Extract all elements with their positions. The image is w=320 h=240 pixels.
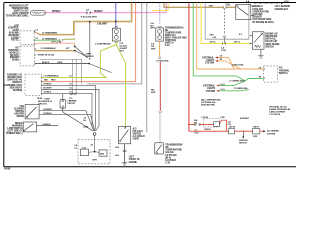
svg-text:C-20 PIN 14: C-20 PIN 14 (269, 113, 281, 116)
svg-text:(WITH TRAILER AND: (WITH TRAILER AND (165, 37, 187, 40)
svg-text:EXTERNAL: EXTERNAL (203, 84, 215, 87)
svg-text:3 AND 24 SHEET: 3 AND 24 SHEET (269, 111, 286, 114)
svg-text:A/C HEATER: A/C HEATER (267, 130, 279, 133)
pin row y55 (34, 54, 37, 56)
svg-text:ENGINE A/C: ENGINE A/C (265, 32, 278, 35)
wire RD down to gauge (159, 62, 161, 111)
ground G101 (122, 163, 127, 166)
svg-text:LT GREEN 20A: LT GREEN 20A (234, 87, 248, 90)
svg-text:SYSTEM: SYSTEM (206, 91, 215, 93)
external lights upper text (202, 56, 214, 64)
svg-text:RES: RES (100, 153, 105, 155)
svg-text:RED: RED (51, 80, 56, 82)
fuse block dashed (204, 119, 220, 128)
svg-text:HEATED SEAT: HEATED SEAT (7, 76, 23, 79)
HTR control head text block (8, 25, 19, 41)
svg-text:ENGINE A: ENGINE A (252, 5, 263, 8)
svg-text:LT GREEN/BLK: LT GREEN/BLK (41, 48, 57, 50)
svg-text:2-BL/WHT: 2-BL/WHT (97, 23, 108, 25)
svg-text:LIGHTS: LIGHTS (207, 88, 215, 90)
svg-text:(IN A): (IN A) (165, 156, 171, 159)
svg-text:LT GREEN/BLK: LT GREEN/BLK (44, 76, 60, 78)
svg-text:C-20: C-20 (165, 163, 171, 165)
fan switch box top right (236, 5, 255, 20)
A/C control module dashed box (20, 46, 35, 66)
fuse box 1 (189, 130, 229, 132)
svg-text:4-RD/WHT: 4-RD/WHT (240, 117, 250, 120)
wire LG chartreuse pin1 (42, 77, 107, 79)
wire OR/salmon vertical B (to A/C module pin2) (41, 3, 135, 82)
wire OR from switch down (159, 41, 161, 57)
svg-text:A-2 4-BOLR: A-2 4-BOLR (133, 135, 146, 138)
pin 2 (33, 39, 36, 41)
wire YL vertical right (201, 3, 251, 44)
arrow into resistor box (250, 43, 252, 45)
svg-text:DO-HD L4/T: DO-HD L4/T (265, 40, 278, 43)
svg-text:MTR: MTR (93, 159, 98, 161)
thermal switch text (279, 67, 290, 75)
blower switch text (14, 105, 24, 118)
svg-text:2-CHARTREUSE: 2-CHARTREUSE (95, 42, 111, 45)
svg-text:LIGHTS: LIGHTS (206, 60, 214, 62)
svg-text:WT/WHT: WT/WHT (44, 109, 53, 111)
wire TN top to fan switch (164, 3, 236, 8)
rear wiper switch box (118, 127, 130, 144)
svg-text:2-A/BLK: 2-A/BLK (42, 123, 51, 126)
wire stubs down with arrows (73, 59, 77, 92)
svg-text:TAN: TAN (44, 79, 49, 82)
wire BK from switch down (124, 144, 126, 164)
gray bus line 2 (146, 3, 148, 132)
svg-text:BLACK: BLACK (42, 61, 50, 64)
svg-text:COOLANT: COOLANT (252, 8, 264, 11)
fuse F1 component (38, 94, 93, 131)
svg-text:LT GREEN/RED: LT GREEN/RED (42, 33, 58, 35)
svg-text:BL/WHT: BL/WHT (44, 88, 53, 90)
svg-text:(WITH A/C 4A): (WITH A/C 4A) (8, 79, 23, 82)
svg-text:(ASSEMBLY RGT: (ASSEMBLY RGT (4, 84, 22, 87)
brake warning text (6, 122, 23, 135)
wire pin5 (42, 93, 94, 131)
svg-text:2-WIRE GROUNDS AT: 2-WIRE GROUNDS AT (269, 108, 291, 111)
svg-text:TO REAR SIDE BRKL: TO REAR SIDE BRKL (6, 15, 30, 18)
transmission switch box (156, 28, 164, 41)
svg-text:ENGINE BAY: ENGINE BAY (275, 8, 289, 11)
gray box control assembly (40, 59, 82, 84)
gray bus line 1 (87, 3, 142, 84)
svg-text:TEMPERATURE: TEMPERATURE (165, 31, 182, 34)
heated seat module text block (4, 73, 23, 92)
svg-text:SYSTEM: SYSTEM (205, 63, 214, 65)
ground under sensor (260, 49, 262, 55)
coolant aux switch box (250, 32, 264, 49)
resistor block B (99, 150, 107, 156)
wire LG pin2 short (35, 39, 60, 41)
chartreuse net from relay (100, 41, 125, 127)
svg-text:C4CF: C4CF (57, 61, 63, 64)
connector S2 on pink wire (87, 11, 91, 14)
svg-text:LR 350 AM: LR 350 AM (165, 154, 176, 157)
wire BL blue vertical (115, 3, 117, 29)
connector on TN wire (223, 6, 226, 9)
svg-text:OPTIONAL A/C 94: OPTIONAL A/C 94 (269, 105, 287, 108)
top right dash-dot line (254, 2, 281, 4)
svg-text:LT GREEN/BLK: LT GREEN/BLK (42, 38, 58, 40)
blower resistor dashed box (78, 140, 110, 164)
pin C2 top (33, 30, 36, 32)
wire GN vertical (193, 3, 236, 76)
A/C thermal switch dashed box (264, 66, 278, 82)
node S201 top-left text block (6, 5, 30, 18)
wires from blower switch (39, 111, 94, 131)
border frame (4, 3, 296, 167)
svg-text:OF ENGINE BLOCK): OF ENGINE BLOCK) (252, 22, 274, 24)
A/C control head dashed box (20, 31, 34, 44)
svg-text:ASSEMBLY A2: ASSEMBLY A2 (7, 73, 23, 76)
brake switch SW2 box (23, 122, 37, 132)
svg-text:C-15 R5: C-15 R5 (201, 117, 209, 119)
orange wires to thermal switch (218, 58, 241, 69)
resistor R1 in-line (31, 11, 46, 16)
right mid text block (269, 105, 291, 116)
svg-text:30A F5: 30A F5 (229, 126, 236, 129)
rear wiper text (133, 127, 146, 140)
svg-text:GAUGE: GAUGE (165, 151, 174, 154)
gray box engine compartment (205, 3, 249, 40)
external lights lower text (203, 84, 215, 92)
wire RD vertical long (188, 3, 190, 132)
svg-text:(GROUND PIN): (GROUND PIN) (201, 105, 215, 107)
svg-text:SWITCH: SWITCH (239, 143, 247, 145)
svg-text:2-RD: 2-RD (253, 136, 258, 138)
pin row y63.5 black wire (34, 62, 37, 64)
svg-text:SHOWN): SHOWN) (13, 90, 22, 92)
svg-text:ENGINE: ENGINE (129, 162, 138, 164)
wire WT drop from splice (89, 22, 91, 58)
temp gauge box (155, 143, 164, 154)
wire WT white to gauge (159, 113, 161, 143)
gauge text block (165, 143, 182, 164)
svg-text:C2/BL: C2/BL (83, 127, 89, 129)
svg-text:TRANSMISSION: TRANSMISSION (165, 143, 182, 146)
svg-text:TEMPERATURE: TEMPERATURE (165, 149, 182, 152)
blower switch SW1 box (25, 105, 39, 119)
connector on yellow (223, 42, 226, 45)
svg-text:PK/WHT: PK/WHT (52, 11, 61, 13)
svg-text:WT/BLK: WT/BLK (44, 113, 53, 115)
wire YL short top (152, 3, 168, 11)
pin row y48 (34, 48, 37, 50)
fuse box 2 (253, 129, 260, 134)
svg-text:A/C: A/C (279, 67, 283, 70)
svg-text:DASH): DASH) (12, 59, 19, 62)
wire LG/RD two-tone from control head pin1 (34, 3, 132, 36)
svg-text:SYSTEM: SYSTEM (267, 133, 275, 135)
A/C control module text (8, 47, 19, 62)
svg-text:2-RD: 2-RD (220, 117, 225, 119)
svg-text:M-89: M-89 (5, 167, 11, 170)
fan switch text (252, 5, 274, 24)
svg-text:A/C CL: A/C CL (70, 93, 77, 96)
svg-text:A2 12GA WHT: A2 12GA WHT (83, 16, 97, 19)
svg-text:AWAY SENSE: AWAY SENSE (265, 43, 280, 46)
svg-text:2-B 4-20 A: 2-B 4-20 A (133, 130, 144, 133)
wire diagonal to splice (75, 46, 88, 58)
svg-text:SWITCH A: SWITCH A (165, 34, 176, 37)
svg-text:GY/BLK: GY/BLK (44, 91, 52, 93)
dashed drop from TN connector (224, 8, 226, 35)
heated seat dashed box (25, 74, 41, 95)
svg-text:WT 12 GA: WT 12 GA (52, 41, 62, 44)
svg-text:WT/BLK: WT/BLK (44, 84, 53, 86)
svg-text:B/O CL: B/O CL (11, 40, 19, 42)
down arrow branch (242, 131, 244, 136)
svg-text:START AT 98 GA: START AT 98 GA (38, 53, 55, 56)
svg-text:FENDER WALL): FENDER WALL) (6, 132, 23, 135)
wire PK pink horizontal (46, 3, 166, 13)
svg-text:2-ORG 20GA: 2-ORG 20GA (232, 63, 244, 66)
svg-text:DK YL: DK YL (210, 42, 217, 44)
svg-text:TRANSMISSION A: TRANSMISSION A (165, 26, 184, 29)
svg-text:15A F9: 15A F9 (253, 126, 260, 129)
svg-text:LT GREEN 20GA: LT GREEN 20GA (229, 79, 245, 82)
svg-text:PK/WHT: PK/WHT (94, 11, 103, 13)
svg-text:3 MFD: 3 MFD (133, 139, 140, 141)
arrows upper (215, 57, 218, 59)
wire salmon row3 (34, 43, 74, 46)
svg-text:C-10: C-10 (165, 45, 171, 47)
wire pin4 (42, 90, 99, 132)
svg-text:(WITH A1): (WITH A1) (265, 38, 276, 41)
svg-text:DK YL: DK YL (234, 42, 241, 44)
wire WT pin3 (42, 85, 96, 131)
svg-text:THERMAL: THERMAL (279, 69, 290, 72)
splice node A2 (89, 21, 91, 23)
transmission text block (165, 26, 187, 47)
svg-text:1B-08: 1B-08 (37, 98, 43, 100)
svg-text:(FAN SW): (FAN SW) (252, 13, 262, 16)
svg-text:EXTERNAL: EXTERNAL (202, 56, 214, 59)
svg-text:C2 TAN 20GA: C2 TAN 20GA (156, 59, 169, 62)
svg-text:SWITCH: SWITCH (279, 73, 288, 75)
svg-text:GRY: GRY (209, 6, 214, 8)
svg-text:TEMPERATURE: TEMPERATURE (252, 10, 269, 13)
pin wires (40, 76, 43, 78)
dashed wire DB to transmission switch (159, 3, 161, 25)
green wires to thermal switch (219, 76, 263, 91)
wire OR vertical right (197, 3, 264, 69)
svg-text:CIRCUIT: CIRCUIT (67, 103, 76, 105)
relay K1 box (112, 28, 120, 41)
svg-text:MODE): MODE) (17, 116, 25, 118)
svg-text:SWITCH: SWITCH (265, 46, 274, 48)
